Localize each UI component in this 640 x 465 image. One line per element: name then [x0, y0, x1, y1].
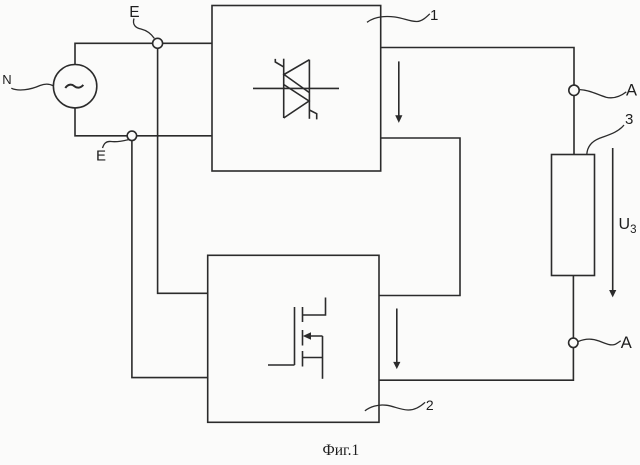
svg-text:3: 3	[625, 111, 633, 128]
leader line N	[11, 84, 53, 90]
node E bottom	[127, 131, 136, 140]
wire from load bottom through node A bottom to block 2	[379, 276, 573, 381]
wire from source bottom to block 1	[75, 108, 212, 136]
wire from node E top down to block 2	[158, 43, 208, 293]
mosfet drain lead	[303, 298, 326, 316]
leader line E top	[133, 19, 154, 39]
node A bottom	[569, 338, 578, 347]
svg-text:A: A	[626, 82, 637, 100]
triac right bar	[308, 60, 310, 119]
svg-text:E: E	[129, 4, 139, 21]
node A top	[569, 85, 579, 95]
block 2	[208, 255, 379, 422]
svg-text:U3: U3	[619, 216, 637, 236]
block 1	[212, 6, 381, 172]
triac main terminal line	[253, 87, 339, 89]
AC source N	[53, 65, 96, 108]
wire from node E bottom down to block 2	[132, 136, 208, 378]
svg-text:1: 1	[430, 7, 438, 24]
triac upper triangle	[284, 60, 309, 93]
svg-text:N: N	[2, 72, 11, 87]
current arrow at block 1 output	[395, 61, 402, 123]
mosfet gate bar	[294, 307, 296, 365]
leader line E bottom	[103, 140, 129, 148]
triac left bar	[283, 59, 285, 118]
triac U1	[253, 59, 339, 120]
leader line A bottom	[578, 339, 620, 345]
mosfet channel dashes	[302, 307, 304, 367]
mosfet Q1	[268, 298, 326, 379]
triac gate bottom	[309, 110, 316, 119]
mosfet gate lead	[268, 364, 295, 366]
node E top	[153, 38, 163, 48]
svg-text:E: E	[96, 147, 106, 164]
svg-text:2: 2	[426, 397, 434, 413]
load resistor 3	[552, 155, 595, 276]
mosfet body lead with arrow	[306, 335, 323, 337]
leader line 3	[587, 125, 624, 154]
mosfet source lead	[303, 357, 323, 359]
svg-text:A: A	[621, 334, 632, 352]
wire feedback from block 1 to block 2	[379, 138, 460, 296]
triac gate top	[275, 59, 283, 67]
leader line 1	[367, 14, 430, 22]
voltage arrow U3	[609, 148, 616, 297]
svg-text:Фиг.1: Фиг.1	[323, 442, 360, 459]
leader line A top	[580, 90, 627, 98]
triac lower triangle	[284, 85, 309, 119]
leader line 2	[365, 402, 425, 411]
wire from block 1 right to node A top and load	[381, 48, 574, 155]
current arrow at block 2 output	[393, 309, 400, 370]
wire from source top to block 1	[75, 43, 212, 64]
mosfet source vertical	[322, 336, 324, 379]
